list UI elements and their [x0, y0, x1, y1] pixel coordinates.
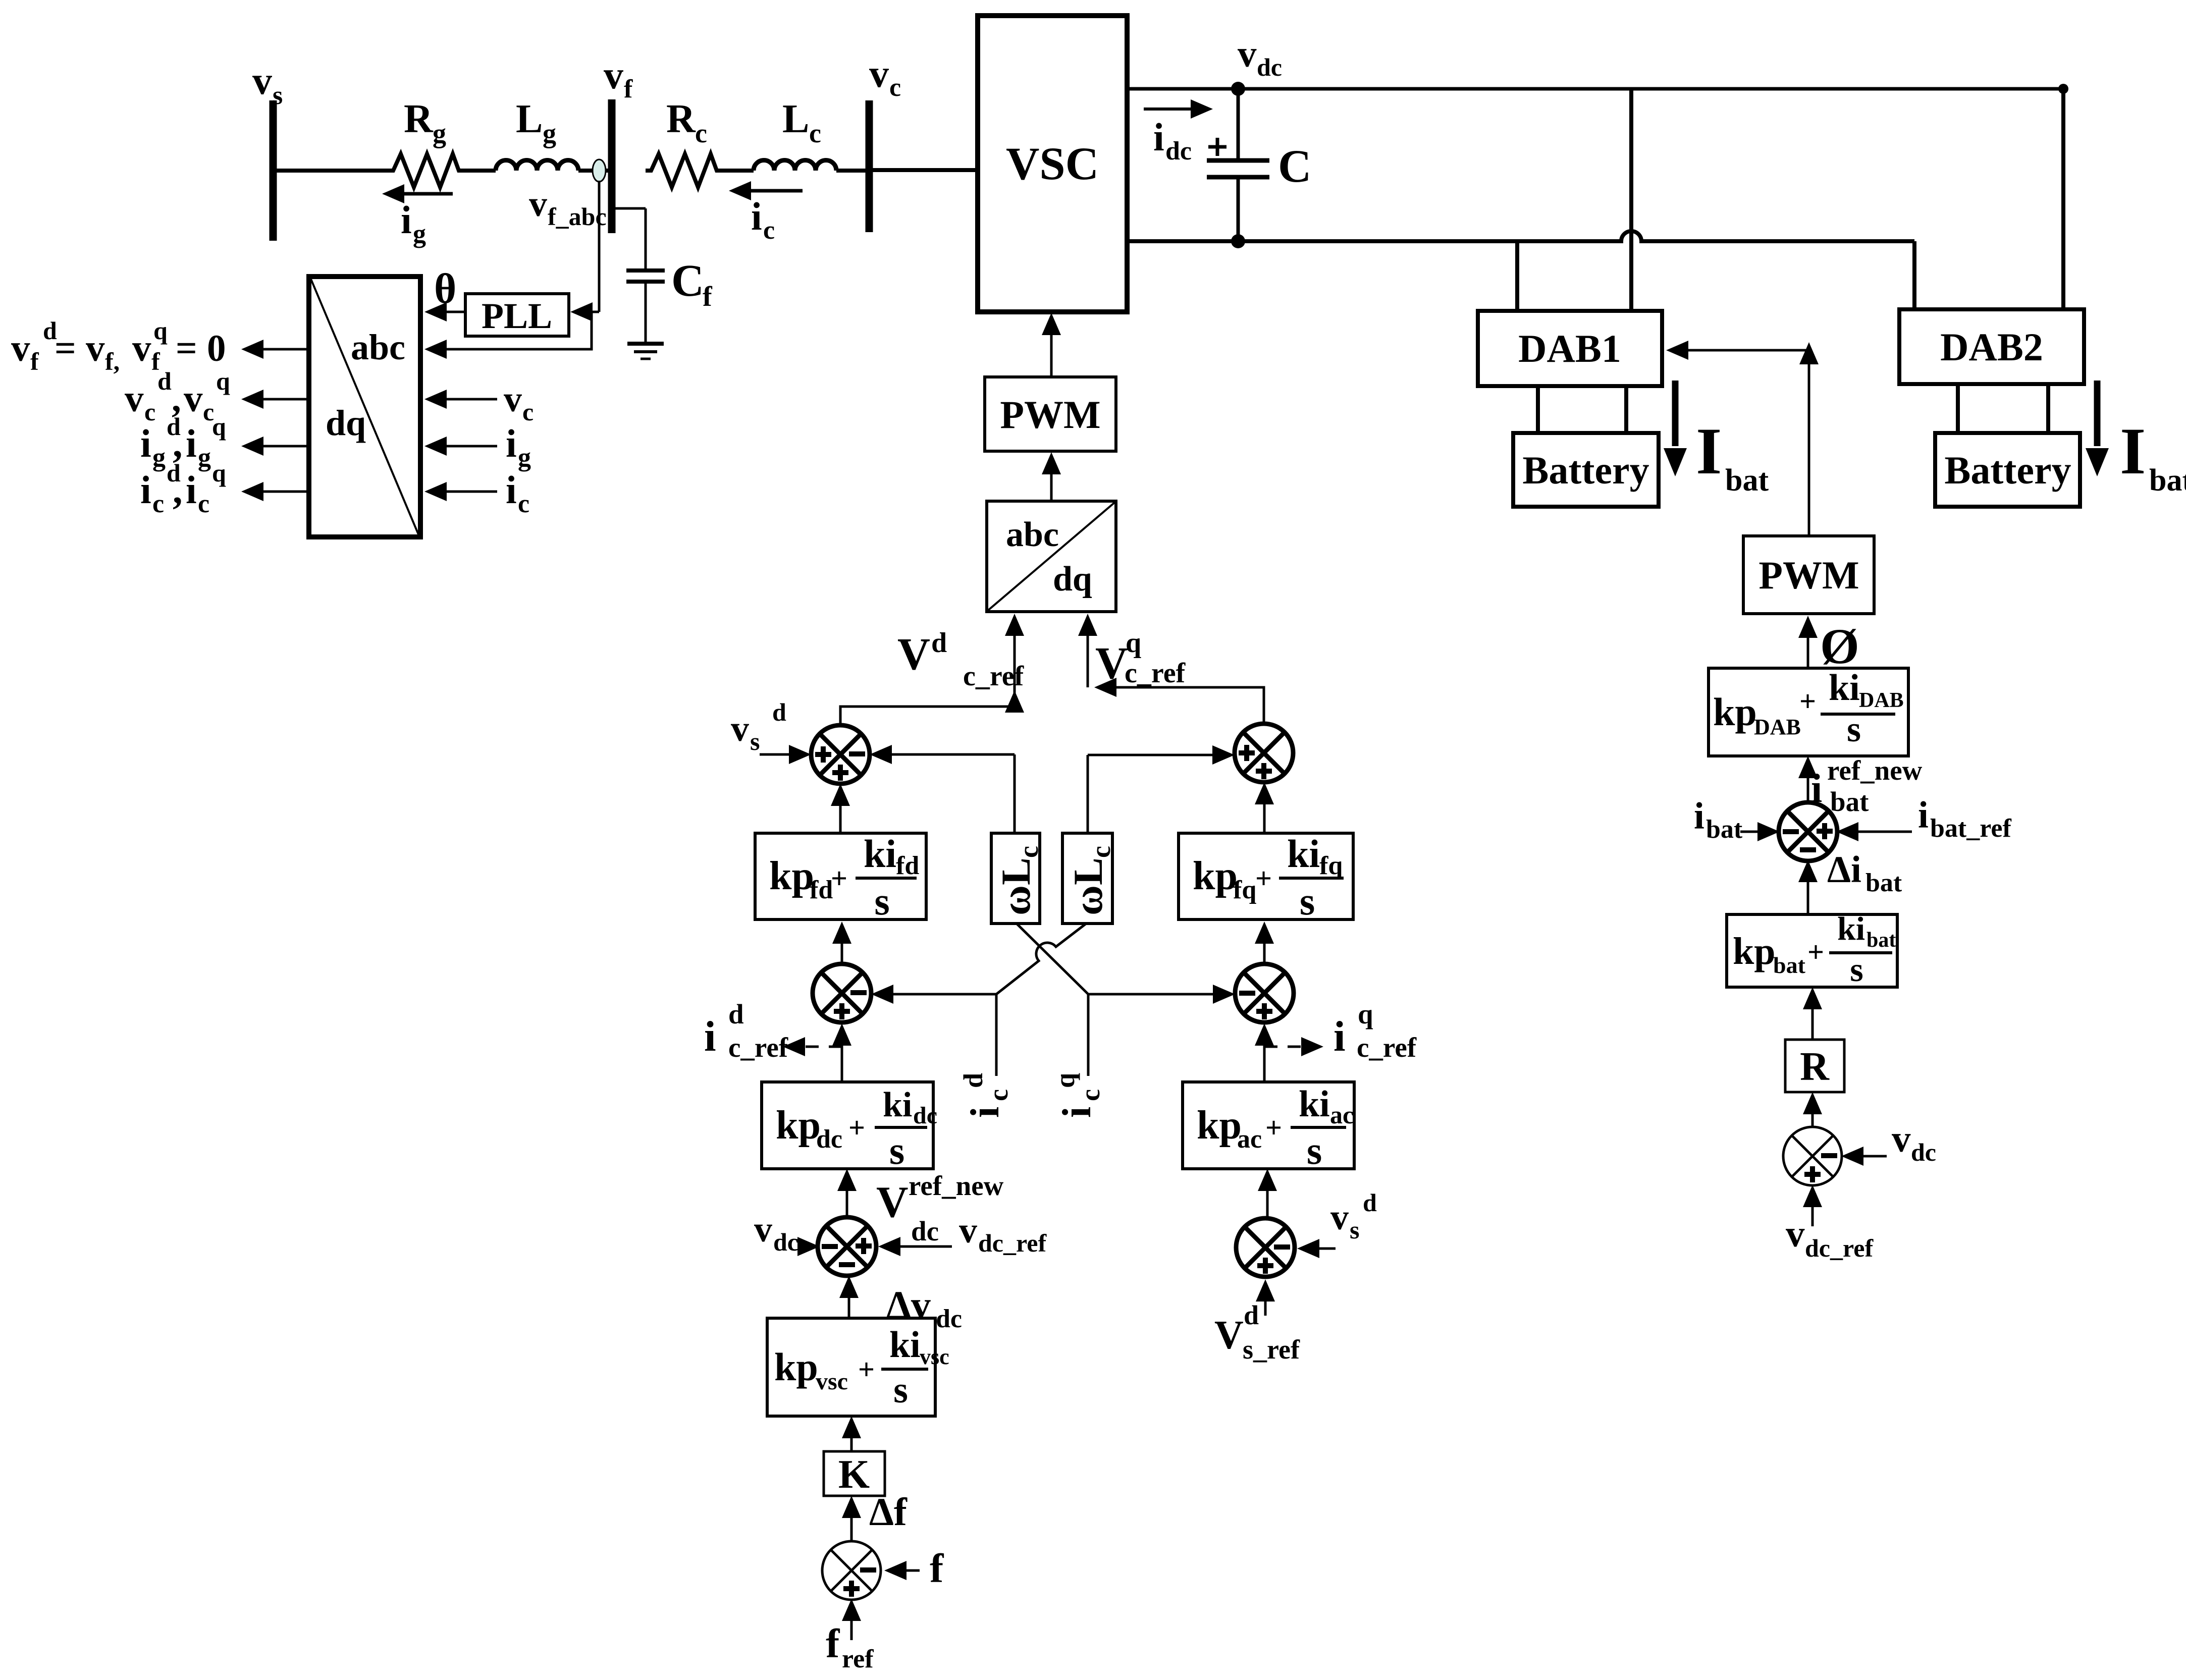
svg-text:q: q — [216, 367, 230, 395]
svg-text:v: v — [504, 379, 522, 419]
svg-text:+: + — [1265, 1111, 1282, 1144]
svg-text:i: i — [963, 1107, 1007, 1118]
svg-text:c: c — [518, 490, 529, 518]
svg-text:i: i — [1694, 795, 1704, 837]
svg-text:0: 0 — [207, 328, 226, 369]
svg-text:VSC: VSC — [1006, 138, 1099, 189]
svg-text:c: c — [763, 216, 775, 245]
svg-text:ωL: ωL — [993, 857, 1039, 915]
svg-text:Ø: Ø — [1820, 618, 1859, 674]
svg-text:f: f — [930, 1545, 944, 1591]
svg-text:v: v — [125, 378, 144, 420]
svg-text:dc: dc — [913, 1102, 937, 1129]
svg-text:fd: fd — [810, 876, 833, 904]
svg-text:R: R — [1800, 1045, 1830, 1089]
svg-text:i: i — [1055, 1107, 1099, 1118]
svg-text:v: v — [184, 378, 203, 420]
svg-text:i: i — [140, 421, 151, 465]
svg-text:v: v — [604, 53, 623, 97]
svg-text:dc: dc — [936, 1305, 962, 1333]
svg-text:V: V — [876, 1178, 909, 1227]
svg-text:s: s — [874, 879, 889, 923]
svg-text:=: = — [176, 328, 197, 369]
svg-text:f,: f, — [105, 347, 120, 375]
svg-text:d: d — [1244, 1300, 1259, 1330]
svg-text:dc: dc — [773, 1228, 798, 1256]
svg-text:v: v — [252, 59, 272, 102]
svg-text:c: c — [983, 1089, 1014, 1101]
svg-text:bat: bat — [1773, 952, 1806, 978]
svg-text:L: L — [516, 97, 543, 141]
svg-text:i: i — [751, 194, 762, 238]
svg-text:kp: kp — [1713, 690, 1757, 734]
svg-text:c_ref: c_ref — [1125, 658, 1186, 689]
svg-text:s: s — [1350, 1216, 1359, 1244]
svg-text:C: C — [1278, 140, 1311, 192]
svg-text:d: d — [1363, 1188, 1377, 1217]
svg-text:i: i — [506, 421, 517, 465]
svg-text:v: v — [754, 1209, 772, 1250]
svg-text:K: K — [838, 1452, 870, 1497]
svg-text:C: C — [671, 256, 704, 306]
svg-text:d: d — [772, 698, 786, 726]
svg-text:bat: bat — [1865, 869, 1902, 897]
svg-text:I: I — [1696, 414, 1722, 488]
svg-text:c: c — [889, 73, 901, 102]
svg-text:,: , — [173, 468, 183, 512]
svg-text:c: c — [522, 398, 534, 426]
svg-text:dc_ref: dc_ref — [1805, 1234, 1874, 1262]
svg-text:i: i — [506, 468, 517, 512]
svg-text:c_ref: c_ref — [1357, 1032, 1417, 1063]
svg-text:i: i — [1918, 794, 1929, 836]
svg-text:v: v — [731, 709, 749, 749]
svg-text:g: g — [152, 443, 166, 472]
svg-text:c: c — [1086, 846, 1116, 858]
svg-text:abc: abc — [351, 327, 405, 367]
svg-text:c: c — [809, 118, 821, 148]
svg-text:dc: dc — [1257, 53, 1282, 81]
svg-text:s: s — [1307, 1128, 1322, 1172]
svg-text:V: V — [897, 629, 930, 679]
svg-text:kp: kp — [769, 854, 814, 898]
svg-text:f: f — [826, 1620, 840, 1666]
svg-text:fd: fd — [896, 851, 919, 880]
svg-text:kp: kp — [774, 1345, 818, 1389]
svg-text:s: s — [1847, 709, 1861, 749]
svg-text:=: = — [55, 328, 76, 369]
svg-text:ki: ki — [1287, 832, 1320, 876]
svg-text:i: i — [401, 198, 412, 242]
svg-text:bat_ref: bat_ref — [1930, 814, 2011, 843]
svg-text:abc: abc — [1006, 515, 1059, 554]
svg-text:q: q — [1050, 1073, 1080, 1088]
svg-text:+: + — [858, 1353, 875, 1386]
svg-text:v: v — [959, 1210, 977, 1251]
svg-text:dc: dc — [911, 1216, 939, 1247]
svg-text:ki: ki — [889, 1324, 921, 1366]
svg-text:q: q — [212, 412, 226, 441]
svg-text:s: s — [750, 727, 760, 755]
svg-text:g: g — [543, 118, 556, 148]
svg-text:s: s — [273, 81, 283, 110]
svg-text:Δv: Δv — [886, 1283, 931, 1327]
svg-text:ac: ac — [1330, 1101, 1354, 1129]
svg-text:i: i — [704, 1013, 716, 1060]
svg-text:d: d — [728, 999, 744, 1029]
svg-text:v: v — [1330, 1197, 1349, 1237]
svg-text:q: q — [212, 459, 226, 487]
svg-text:g: g — [518, 443, 531, 472]
svg-text:ref: ref — [842, 1645, 874, 1673]
svg-text:vsc: vsc — [920, 1344, 949, 1369]
svg-text:i: i — [140, 468, 151, 512]
svg-text:bat: bat — [1830, 786, 1869, 817]
svg-text:ki: ki — [1837, 910, 1865, 947]
svg-text:PWM: PWM — [1000, 393, 1100, 437]
svg-text:ref_new: ref_new — [909, 1170, 1004, 1201]
svg-text:PLL: PLL — [482, 296, 552, 336]
svg-text:f: f — [30, 347, 39, 375]
svg-text:+: + — [848, 1111, 865, 1144]
svg-text:c_ref: c_ref — [963, 661, 1025, 692]
svg-text:v: v — [86, 328, 105, 369]
svg-text:fq: fq — [1233, 876, 1256, 904]
svg-text:ref_new: ref_new — [1827, 755, 1923, 786]
svg-text:c: c — [695, 118, 707, 148]
svg-text:Δi: Δi — [1827, 849, 1861, 891]
svg-text:f: f — [624, 75, 633, 103]
svg-text:dc_ref: dc_ref — [978, 1229, 1047, 1257]
svg-text:bat: bat — [2149, 463, 2186, 498]
svg-text:d: d — [157, 367, 172, 395]
svg-text:q: q — [1126, 627, 1141, 659]
svg-text:DAB: DAB — [1859, 689, 1904, 712]
svg-text:V: V — [1095, 638, 1128, 688]
svg-text:i: i — [1334, 1013, 1346, 1060]
svg-text:c_ref: c_ref — [728, 1032, 788, 1063]
svg-text:v: v — [1786, 1213, 1805, 1255]
svg-text:Battery: Battery — [1522, 448, 1649, 492]
svg-text:c: c — [1014, 846, 1044, 858]
svg-text:i: i — [186, 468, 197, 512]
svg-text:kp: kp — [1197, 1103, 1242, 1148]
svg-text:s: s — [1850, 950, 1863, 989]
svg-text:q: q — [153, 316, 168, 345]
svg-text:s_ref: s_ref — [1243, 1334, 1300, 1365]
svg-text:v: v — [869, 51, 889, 95]
svg-text:s: s — [893, 1370, 908, 1411]
svg-text:+: + — [1799, 685, 1816, 718]
svg-text:dq: dq — [1053, 560, 1092, 599]
svg-text:ki: ki — [864, 832, 896, 876]
svg-text:fq: fq — [1319, 851, 1343, 880]
svg-text:+: + — [831, 862, 847, 895]
svg-text:DAB1: DAB1 — [1518, 327, 1621, 370]
svg-text:g: g — [198, 443, 211, 472]
svg-text:I: I — [2120, 414, 2146, 488]
svg-text:ac: ac — [1237, 1125, 1262, 1154]
svg-text:kp: kp — [1733, 930, 1776, 972]
svg-text:v: v — [1892, 1118, 1911, 1160]
svg-text:Battery: Battery — [1944, 448, 2071, 492]
svg-text:Δf: Δf — [869, 1490, 908, 1534]
svg-text:PWM: PWM — [1758, 553, 1859, 597]
svg-text:i: i — [1153, 115, 1164, 159]
svg-text:kp: kp — [1193, 854, 1238, 898]
svg-text:v: v — [11, 328, 30, 369]
svg-text:ωL: ωL — [1065, 857, 1111, 915]
svg-text:f_abc: f_abc — [548, 202, 607, 231]
svg-text:dc: dc — [1911, 1138, 1936, 1166]
svg-text:c: c — [152, 490, 164, 518]
svg-text:bat: bat — [1867, 929, 1896, 952]
svg-text:+: + — [1807, 936, 1824, 968]
svg-text:g: g — [433, 118, 446, 148]
svg-text:dq: dq — [326, 403, 366, 443]
svg-text:vsc: vsc — [816, 1368, 848, 1395]
svg-text:L: L — [782, 97, 809, 141]
svg-text:bat: bat — [1706, 815, 1743, 844]
svg-text:i: i — [186, 421, 197, 465]
svg-text:d: d — [958, 1073, 988, 1088]
svg-text:c: c — [1075, 1089, 1105, 1101]
svg-text:R: R — [666, 97, 696, 141]
svg-text:d: d — [931, 627, 947, 659]
svg-text:DAB: DAB — [1754, 715, 1801, 739]
svg-text:ki: ki — [1299, 1083, 1330, 1125]
svg-text:s: s — [889, 1128, 904, 1172]
svg-text:c: c — [198, 490, 209, 518]
svg-text:DAB2: DAB2 — [1940, 325, 2043, 369]
svg-text:bat: bat — [1725, 463, 1769, 498]
svg-text:f: f — [703, 281, 713, 312]
svg-text:V: V — [1214, 1313, 1244, 1358]
svg-text:R: R — [404, 97, 434, 141]
svg-text:s: s — [1300, 879, 1315, 923]
svg-text:kp: kp — [776, 1103, 821, 1148]
svg-text:v: v — [529, 184, 547, 224]
svg-text:+: + — [1255, 862, 1272, 895]
svg-text:g: g — [413, 220, 426, 248]
svg-text:ki: ki — [883, 1086, 912, 1124]
svg-text:v: v — [1238, 33, 1257, 75]
svg-text:dc: dc — [1165, 137, 1192, 166]
svg-text:dc: dc — [816, 1125, 842, 1154]
svg-text:v: v — [132, 328, 151, 369]
svg-text:q: q — [1358, 999, 1373, 1029]
